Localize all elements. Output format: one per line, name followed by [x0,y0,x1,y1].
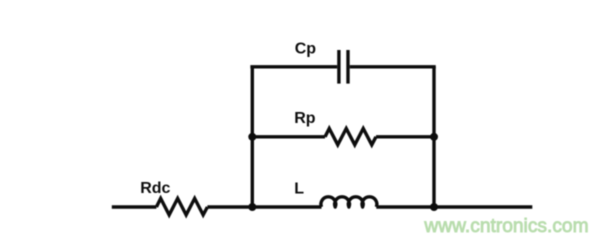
svg-text:Cp: Cp [295,40,317,57]
svg-text:L: L [294,181,304,198]
svg-text:Rdc: Rdc [140,180,170,197]
svg-text:www.cntronics.com: www.cntronics.com [423,216,588,237]
svg-text:Rp: Rp [294,110,316,127]
